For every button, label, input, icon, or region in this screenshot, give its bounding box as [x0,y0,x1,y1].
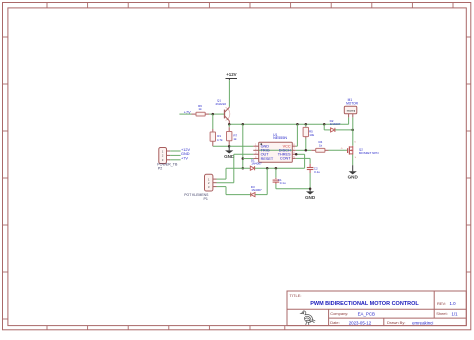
wire P2 pin3 [170,159,180,161]
svg-text:NE555N: NE555N [273,136,287,140]
connector P2 POWER_TB [159,148,167,164]
junction H1-D3 [266,167,269,170]
wire to R7 [228,124,230,127]
wire P2 pin1 [170,150,180,152]
pin 7 DISCH [292,149,296,151]
resistor R7 [227,132,232,141]
svg-text:Date:: Date: [330,320,340,325]
pin 4 RESET [253,158,258,160]
junction base node [212,113,215,116]
svg-text:REV:: REV: [437,301,446,306]
svg-text:2023-05-12: 2023-05-12 [349,320,372,325]
svg-text:Drawn By:: Drawn By: [387,320,405,325]
wire R1 to GND node [213,145,229,147]
junction THRES [295,153,298,156]
junction H1-C1 [275,167,278,170]
wire +12V to Q1 collector [228,80,230,107]
wire to RESET pin [243,158,254,160]
wire R5 to DISCH [305,139,307,151]
wire to D2 anode [324,129,330,131]
svg-text:CONT: CONT [280,157,291,161]
wire motor pin2 to drain [352,117,354,145]
ground 2 [306,191,314,194]
transistor Q1 [225,107,230,124]
pin 5 CONT [292,157,296,159]
wire DISCH to R4 [296,149,312,151]
junction GND node [228,145,231,148]
pin 2 TRIG [253,149,258,151]
transistor Q2 MOSFET [348,146,353,155]
resistor R6 [196,112,205,116]
wire CONT down [309,158,311,163]
svg-text:Company:: Company: [330,311,348,316]
svg-text:1N4007: 1N4007 [251,188,262,192]
svg-text:Sheet:: Sheet: [436,311,448,316]
junction emitter [228,123,231,126]
junction D1 anode node [242,167,245,170]
wire down to D3 anode [266,168,268,194]
logo [301,311,315,325]
junction drain node [351,129,354,132]
wire down to R1 [212,114,214,129]
junction GND rail [309,188,312,191]
svg-text:1k: 1k [233,137,237,141]
wire D2 cathode to drain node [335,129,353,131]
svg-text:TITLE:: TITLE: [290,293,302,298]
svg-text:1.0: 1.0 [450,301,457,306]
svg-text:1/1: 1/1 [452,311,459,316]
resistor R5 [303,127,308,136]
motor M1 [344,106,357,114]
wire rail to D2 [323,124,325,130]
ground 3 stem [352,165,354,171]
wire R4 to Q2 gate [329,149,348,151]
svg-text:G: G [341,148,343,150]
wire VCC pin [296,145,298,147]
ground 3 [349,171,357,174]
wire R6 to Q1 base [209,113,224,115]
svg-text:RESET: RESET [261,157,274,161]
wire to C1 [275,168,277,178]
title block [287,291,466,326]
wire D3 cathode to P1 pin3 [226,194,251,196]
wire motor pin1 to rail [348,117,350,124]
wire THRES down to C node [304,154,306,168]
svg-text:GND: GND [305,195,316,200]
wire H1 left [226,167,250,169]
wire C1 to GND rail [275,184,277,189]
pin1 marker [260,143,262,145]
svg-text:10k: 10k [309,133,314,137]
ground 1 stem [228,146,230,150]
wire rail to R5 [305,124,307,127]
pin 3 OUT [253,153,258,155]
motor pin2 stub [352,114,354,118]
motor pin1 stub [348,114,350,118]
svg-text:MOSFET NPN: MOSFET NPN [359,151,379,155]
wire source to GND [352,155,354,166]
wire bottom GND rail [276,188,310,190]
svg-text:0.1u: 0.1u [280,181,286,185]
op-amp U1 NE555N [259,142,293,162]
junction rail-VCC branch [296,123,299,126]
svg-text:1k: 1k [319,143,323,147]
resistor R4 [316,148,325,152]
wire P1 pin1 [217,178,227,180]
diode D3 [250,193,252,197]
wire THRES [296,153,305,155]
svg-text:GND: GND [348,175,359,180]
svg-text:EA_PCB: EA_PCB [358,311,375,316]
svg-text:+7V: +7V [181,157,188,161]
junction RESET tap [242,157,245,160]
junction rail-D2 [323,123,326,126]
svg-text:0.1u: 0.1u [314,170,320,174]
wire P1 pin2 to OUT [217,182,234,184]
svg-text:4.7k: 4.7k [217,138,223,142]
wire TRIG to DISCH across U1 [259,149,293,151]
diode D1 [250,166,254,170]
ground 1 [225,150,233,153]
wire emitter rail [229,123,349,125]
connector P1 POT KLEMENS [205,174,213,191]
svg-text:+12V: +12V [181,148,190,152]
junction rail-reset branch [242,123,245,126]
wire C2 to GND rail [309,173,311,189]
pin 8 VCC [292,145,296,147]
diode D2 [331,128,335,132]
wire +7V to R6 [179,113,191,115]
svg-text:emreakinci: emreakinci [412,320,433,325]
svg-text:1k: 1k [198,107,202,111]
wire OUT [234,153,254,155]
wire VCC up to rail [296,124,298,146]
wire P2 pin2 [170,154,180,156]
ground 2 stem [309,189,311,192]
wire OUT down to P1 pin2 [233,154,235,182]
pin 6 THRES [292,153,296,155]
junction rail-R5 [305,123,308,126]
svg-text:2N2222: 2N2222 [216,102,227,106]
resistor R1 [210,132,215,141]
wire P1 pin3 down [225,187,227,195]
junction DISCH-R5 [305,149,308,152]
svg-text:1N4007: 1N4007 [330,122,341,126]
wire H1 right [255,167,305,169]
svg-text:1N4007: 1N4007 [251,162,262,166]
wire CONT [296,157,310,159]
svg-text:MOTOR: MOTOR [346,101,359,105]
capacitor C1 [273,179,280,181]
motor inner mark [347,110,355,112]
svg-text:+12V: +12V [226,72,236,77]
svg-text:P2: P2 [158,166,162,170]
wire GND net to U1 pin1 [229,145,253,147]
pin 1 GND [253,145,258,147]
wire rail to RESET and D1 [242,124,244,168]
svg-text:GND: GND [181,152,190,156]
svg-text:P1: P1 [204,197,208,201]
capacitor C2 [307,167,314,169]
svg-text:PWM BIDIRECTIONAL MOTOR CONTRO: PWM BIDIRECTIONAL MOTOR CONTROL [310,301,419,307]
wire D3 anode [255,194,267,196]
wire P1 pin1 up to H1 [225,168,227,179]
wire P1 pin3 [217,186,227,188]
